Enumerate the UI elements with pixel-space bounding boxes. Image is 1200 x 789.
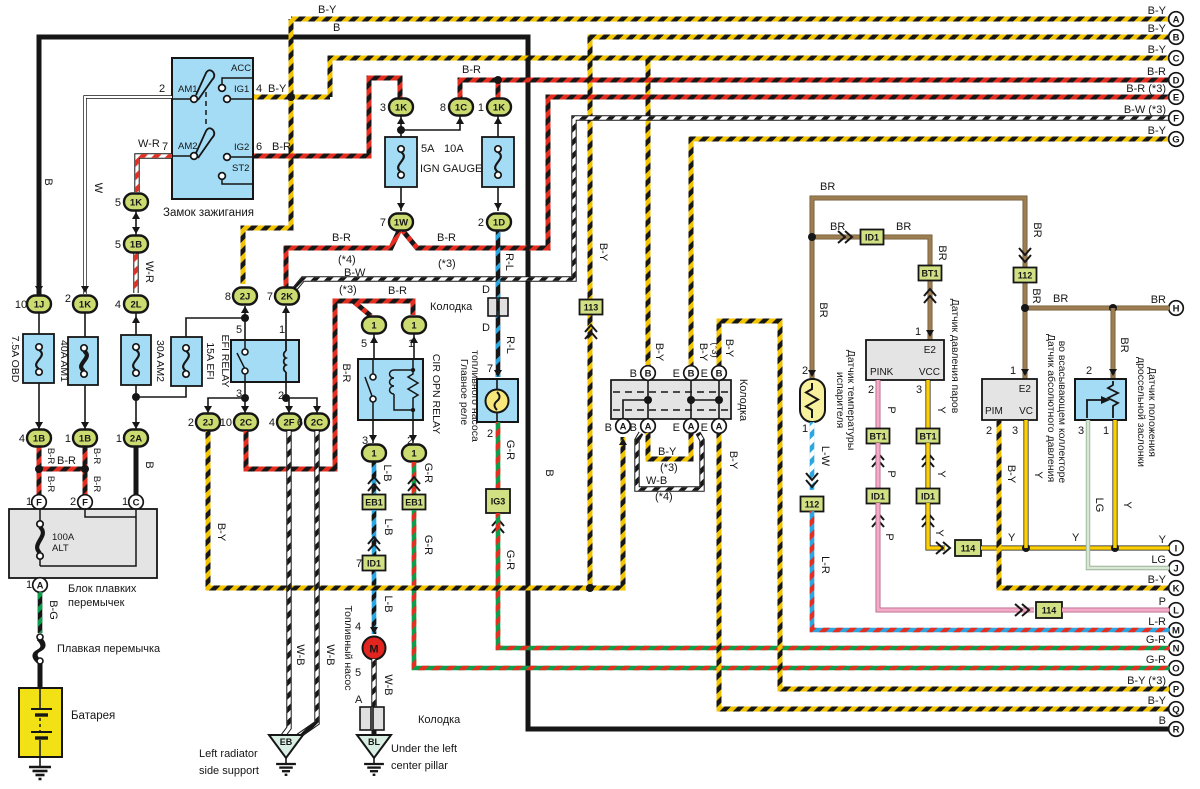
terminal B	[1169, 30, 1184, 45]
arrowhead into relay box	[494, 370, 502, 377]
svg-text:C: C	[1173, 53, 1180, 64]
arrowhead into TPS	[1109, 369, 1117, 376]
wire W-R 1B to 2L	[133, 253, 138, 293]
terminal F	[1169, 111, 1184, 126]
svg-text:7: 7	[356, 558, 362, 570]
connector ID1 left	[363, 556, 386, 571]
wire EFI fuse top to relay node	[186, 318, 245, 349]
svg-text:B: B	[605, 422, 612, 434]
wire Y to terminal I	[981, 546, 1169, 551]
wire LG to terminal J	[1088, 420, 1169, 568]
svg-text:B-Y: B-Y	[318, 4, 337, 16]
wire R-L 1D to relay	[496, 231, 501, 377]
wire pin2 branch	[286, 398, 317, 413]
svg-text:G-R: G-R	[1146, 654, 1166, 666]
svg-text:1: 1	[411, 449, 417, 460]
svg-text:8: 8	[225, 291, 231, 303]
svg-text:L: L	[1173, 605, 1179, 616]
terminal F1	[32, 495, 47, 510]
terminal C	[129, 495, 144, 510]
connector IG3	[486, 489, 510, 513]
svg-text:Left radiator: Left radiator	[199, 748, 258, 760]
svg-text:(*3): (*3)	[660, 462, 678, 474]
svg-text:1: 1	[802, 423, 808, 435]
svg-text:B-R: B-R	[388, 285, 407, 297]
wire G-R EB1 to terminal O	[414, 510, 1169, 668]
svg-text:112: 112	[1018, 271, 1033, 281]
junction BR H right	[1109, 304, 1117, 312]
wire 10A fuse to 1D	[497, 187, 499, 211]
wire B-R 1B to F1	[37, 446, 42, 495]
terminal O	[1169, 661, 1184, 676]
svg-text:Батарея: Батарея	[71, 710, 115, 722]
wire B-Y loop A2-A3	[648, 433, 691, 459]
svg-text:EB1: EB1	[365, 498, 383, 508]
wire pin3 to oval	[372, 420, 374, 443]
fusible link block internals	[40, 509, 136, 566]
svg-text:BR: BR	[1030, 288, 1042, 303]
junction D-line stub	[494, 76, 502, 84]
svg-text:B-R: B-R	[57, 455, 76, 467]
wire BR top run	[812, 198, 1025, 380]
EFI relay internals	[237, 340, 286, 382]
svg-text:5: 5	[355, 667, 361, 679]
ground battery	[29, 767, 51, 779]
svg-text:ID1: ID1	[921, 492, 935, 502]
svg-text:W-B: W-B	[294, 644, 306, 665]
terminal D	[1169, 73, 1184, 88]
svg-text:B: B	[630, 368, 637, 380]
svg-text:1B: 1B	[33, 434, 45, 445]
connector BT1 Y	[917, 429, 940, 444]
fuse box 40A AM1	[68, 337, 98, 385]
svg-text:1W: 1W	[394, 218, 408, 229]
svg-text:Колодка: Колодка	[418, 714, 461, 726]
wire P to terminal L	[878, 503, 1034, 610]
wire G-R oval to EB1	[412, 462, 417, 494]
block circle A1	[616, 419, 631, 434]
connector 1 pin5	[362, 317, 386, 334]
junction block right	[715, 396, 723, 404]
svg-text:B-Y: B-Y	[268, 83, 287, 95]
svg-text:Y: Y	[1032, 471, 1044, 479]
svg-text:Q: Q	[1172, 704, 1179, 715]
svg-text:G: G	[1172, 134, 1179, 145]
svg-text:CIR OPN RELAY: CIR OPN RELAY	[430, 354, 442, 434]
svg-text:112: 112	[805, 500, 820, 510]
fuse element 5A IGN	[398, 146, 404, 178]
wire B-Y terminal C run	[330, 58, 1169, 97]
terminal J	[1169, 561, 1184, 576]
svg-text:B-Y: B-Y	[1148, 44, 1167, 56]
wire L-B oval to EB1	[372, 462, 377, 494]
svg-text:2: 2	[159, 83, 165, 95]
svg-text:Y: Y	[1008, 532, 1016, 544]
svg-text:4: 4	[269, 417, 275, 429]
svg-text:BR: BR	[820, 181, 835, 193]
svg-text:AM2: AM2	[178, 141, 198, 152]
svg-text:IG3: IG3	[491, 497, 506, 507]
wire EB stem	[285, 758, 287, 763]
svg-text:10A: 10A	[444, 143, 464, 155]
svg-text:EFI RELAY: EFI RELAY	[219, 335, 231, 388]
svg-text:P: P	[885, 470, 897, 477]
connector 2A	[124, 430, 148, 447]
arrowhead into 2J lower	[204, 406, 212, 413]
wire BR branch to vapor sensor	[812, 237, 930, 340]
wire W-B from 2C6	[297, 431, 317, 737]
svg-text:E2: E2	[1019, 384, 1032, 395]
MAP sensor box	[982, 379, 1037, 420]
chevrons BT1 BR	[924, 289, 936, 303]
wire G-R relay to IG3	[496, 422, 501, 489]
svg-text:1K: 1K	[79, 300, 91, 311]
arrowhead into 1K3	[397, 117, 405, 124]
connector 1 below pin2	[402, 445, 426, 462]
svg-text:1: 1	[411, 321, 417, 332]
junction EFI fuse / relay pin5	[241, 314, 249, 322]
svg-text:B-R: B-R	[340, 364, 352, 383]
svg-text:B-R: B-R	[91, 448, 102, 465]
svg-text:BR: BR	[1031, 222, 1043, 237]
evaporator temperature sensor	[800, 379, 825, 422]
wire B-R 1W to connector 2K	[286, 231, 399, 288]
wire B-R bridge	[39, 467, 85, 472]
block circle B2	[684, 366, 699, 381]
svg-text:B-R (*3): B-R (*3)	[1126, 83, 1166, 95]
terminal C	[1169, 51, 1184, 66]
terminal N	[1169, 641, 1184, 656]
wire AM1 fuse to 1B	[84, 385, 86, 430]
wire B-Y 2J to block A1	[208, 431, 623, 588]
chevrons ID1 P	[872, 513, 884, 527]
svg-text:2J: 2J	[203, 418, 214, 429]
svg-text:дроссельной заслонки: дроссельной заслонки	[1135, 357, 1147, 467]
svg-text:ID1: ID1	[367, 559, 381, 569]
svg-text:3: 3	[916, 384, 922, 396]
svg-text:E: E	[673, 422, 680, 434]
wire W-B pump to kolodka	[371, 659, 376, 707]
wire W-B loop A2-A3	[637, 433, 702, 489]
wire B-Y IG1 pin 4	[254, 95, 330, 100]
svg-text:1J: 1J	[34, 300, 45, 311]
svg-text:L-B: L-B	[382, 518, 394, 535]
svg-text:B: B	[716, 368, 723, 379]
svg-text:4: 4	[256, 83, 262, 95]
svg-text:G-R: G-R	[1146, 634, 1166, 646]
svg-text:R-L: R-L	[503, 253, 515, 271]
connector D pair	[488, 298, 508, 316]
svg-text:(*4): (*4)	[655, 491, 673, 503]
svg-text:Плавкая перемычка: Плавкая перемычка	[57, 643, 161, 655]
svg-text:B-R: B-R	[45, 476, 56, 493]
svg-text:7: 7	[380, 217, 386, 229]
connector 2F	[277, 414, 301, 431]
connector 1J	[27, 296, 51, 313]
fusible link block box	[9, 509, 157, 578]
ground under BL	[364, 764, 384, 775]
wire 1C elbow to fuse node	[401, 116, 460, 130]
terminal M	[1169, 623, 1184, 638]
svg-text:1: 1	[371, 321, 377, 332]
arrowhead into 1B left	[35, 422, 43, 429]
connector ID1 Y	[917, 489, 940, 504]
svg-text:5: 5	[115, 239, 121, 251]
svg-text:испарителя: испарителя	[834, 372, 846, 428]
fuse box 10A GAUGE	[482, 137, 514, 187]
terminal P	[1169, 682, 1184, 697]
arrowhead into 2J upper	[241, 306, 249, 313]
svg-text:EB1: EB1	[405, 498, 423, 508]
svg-text:P: P	[1173, 684, 1180, 695]
svg-text:B-Y: B-Y	[597, 243, 609, 262]
wire kolodka to BL	[372, 730, 377, 736]
svg-text:1: 1	[408, 338, 414, 350]
svg-text:Топливный насос: Топливный насос	[342, 606, 354, 691]
fuel pump motor	[363, 637, 386, 660]
arrowhead into MAP sensor	[1021, 369, 1029, 376]
connector 1W	[389, 214, 413, 231]
svg-text:5: 5	[236, 324, 242, 336]
svg-text:BT1: BT1	[869, 432, 886, 442]
svg-text:D: D	[1173, 75, 1180, 86]
arrowhead into 2K	[282, 306, 290, 313]
chevrons L-B upper	[368, 477, 380, 491]
svg-text:(*4): (*4)	[338, 254, 356, 266]
svg-text:1K: 1K	[493, 103, 505, 114]
svg-text:114: 114	[961, 544, 976, 554]
wire AM2 fuse to node	[135, 385, 137, 430]
wire node to 2J upper	[244, 306, 246, 318]
connector 1B lower left	[27, 430, 51, 447]
svg-text:BR: BR	[896, 221, 911, 233]
svg-text:B-Y: B-Y	[1148, 5, 1167, 17]
wire B-R IG2 to fuse 1K	[254, 78, 400, 156]
chevrons BR ID1	[838, 231, 852, 243]
junction 113 line on 588 run	[586, 584, 594, 592]
terminal A battery	[33, 578, 48, 593]
terminal K	[1169, 581, 1184, 596]
svg-text:N: N	[1173, 643, 1180, 654]
svg-text:B: B	[645, 368, 652, 379]
chevrons G-R	[408, 477, 420, 491]
svg-text:B-R: B-R	[91, 476, 102, 493]
wire B-Y terminal B run via 113	[590, 37, 1169, 588]
svg-text:G-R: G-R	[422, 463, 434, 483]
arrowhead into oval pin5	[370, 336, 378, 343]
svg-text:2: 2	[986, 425, 992, 437]
chevrons BT1 Y	[922, 453, 934, 467]
arrowhead into oval pin1	[410, 336, 418, 343]
svg-text:15A EFI: 15A EFI	[204, 342, 216, 379]
svg-text:6: 6	[256, 141, 262, 153]
connector EB1 right	[403, 495, 426, 510]
svg-text:2L: 2L	[130, 300, 141, 311]
arrowhead into 2A	[132, 422, 140, 429]
svg-text:B: B	[1173, 32, 1180, 43]
svg-text:B-Y: B-Y	[1148, 23, 1167, 35]
connector EB1 left	[363, 495, 386, 510]
svg-text:O: O	[1172, 663, 1179, 674]
junction Y TPS	[1111, 544, 1119, 552]
svg-text:ID1: ID1	[871, 492, 885, 502]
svg-text:B: B	[42, 178, 54, 185]
wire B-Y node A down to connector 2J	[243, 19, 291, 284]
wire L-B ID1 to pump	[372, 571, 377, 634]
wire pin2 to oval	[412, 420, 414, 443]
wire B-R to oval 1	[353, 301, 413, 315]
fuse box 7.5A OBD	[23, 334, 54, 383]
wire BR to TPS	[1111, 308, 1116, 379]
terminal A	[1169, 12, 1184, 27]
wire Y BT1 to ID1	[926, 443, 931, 489]
junction fuse bottoms	[132, 393, 140, 401]
svg-text:8: 8	[440, 102, 446, 114]
svg-text:AM1: AM1	[178, 84, 198, 95]
relay box EFI RELAY	[231, 340, 299, 382]
block circle A4	[712, 419, 727, 434]
svg-text:L-R: L-R	[819, 556, 831, 574]
svg-text:M: M	[1172, 625, 1180, 636]
svg-text:A: A	[37, 580, 44, 591]
connector 1K upper	[124, 194, 148, 211]
svg-text:2: 2	[478, 217, 484, 229]
svg-text:Y: Y	[933, 529, 945, 537]
fuse box 5A IGN	[385, 137, 417, 187]
svg-text:5: 5	[115, 197, 121, 209]
svg-text:перемычек: перемычек	[68, 597, 125, 609]
connector 1K-3	[389, 99, 413, 116]
svg-text:B-Y: B-Y	[215, 523, 227, 542]
connector 2C-6	[305, 414, 329, 431]
svg-text:ID1: ID1	[865, 233, 879, 243]
svg-text:во всасывающем коллекторе: во всасывающем коллекторе	[1056, 341, 1068, 484]
fuse element 10A GAUGE	[495, 146, 501, 178]
svg-text:7.5A OBD: 7.5A OBD	[9, 336, 21, 383]
junction B-R right	[81, 465, 89, 473]
svg-text:2A: 2A	[130, 434, 142, 445]
connector 1K mid	[73, 296, 97, 313]
wire Y from VCC	[926, 380, 931, 429]
svg-text:W: W	[92, 183, 104, 194]
connector 2L	[124, 296, 148, 313]
block circle B3	[712, 366, 727, 381]
connector 2C-10	[234, 414, 258, 431]
connector 114 P	[1036, 602, 1062, 618]
ground connector EB	[269, 735, 303, 758]
wire oval to relay pin1	[413, 334, 415, 370]
chevrons 114 Y	[936, 542, 950, 554]
svg-text:2K: 2K	[281, 292, 293, 303]
relay box main fuel pump relay	[477, 379, 518, 422]
svg-text:B-Y: B-Y	[697, 343, 709, 362]
svg-text:2: 2	[188, 417, 194, 429]
svg-text:BR: BR	[817, 302, 829, 317]
svg-text:W-B: W-B	[324, 644, 336, 665]
wire AM2/EFI fuse bottom link	[136, 386, 186, 397]
arrowhead into 2F	[285, 406, 293, 413]
wire link to battery	[38, 664, 43, 688]
terminal R	[1169, 722, 1184, 737]
svg-text:P: P	[885, 406, 897, 413]
svg-text:VCC: VCC	[919, 367, 940, 378]
svg-text:BR: BR	[936, 245, 948, 260]
svg-text:A: A	[620, 421, 627, 432]
svg-text:PIM: PIM	[985, 406, 1003, 417]
svg-text:H: H	[1173, 303, 1180, 314]
svg-text:Y: Y	[1159, 534, 1167, 546]
svg-text:L-R: L-R	[1148, 616, 1166, 628]
svg-text:1K: 1K	[395, 103, 407, 114]
svg-text:W-R: W-R	[143, 261, 155, 283]
arrowhead into oval below pin3	[369, 435, 377, 442]
svg-text:ALT: ALT	[52, 543, 69, 554]
wire W-B from 2F	[283, 431, 289, 736]
svg-text:BT1: BT1	[921, 269, 938, 279]
connector block internal wiring	[623, 380, 719, 419]
svg-text:7: 7	[267, 291, 273, 303]
ignition switch internals	[172, 70, 253, 184]
connector kolodka pump	[360, 707, 384, 730]
svg-text:2: 2	[802, 365, 808, 377]
svg-text:B: B	[630, 422, 637, 434]
ground connector BL	[357, 735, 391, 758]
svg-text:E: E	[673, 368, 680, 380]
arrowhead into 1J	[35, 286, 43, 293]
svg-text:VC: VC	[1019, 406, 1033, 417]
junction BR	[808, 233, 816, 241]
connector 1K-1	[487, 99, 511, 116]
svg-text:(*3): (*3)	[438, 258, 456, 270]
svg-text:10: 10	[220, 417, 232, 429]
svg-text:B-Y: B-Y	[1005, 465, 1017, 484]
svg-text:1: 1	[1103, 425, 1109, 437]
wire B-R diagonal to oval 5	[353, 301, 371, 316]
arrowhead into pump	[370, 627, 378, 634]
svg-text:BT1: BT1	[919, 432, 936, 442]
arrowhead into 2C-6	[313, 406, 321, 413]
connector 2J lower	[196, 414, 220, 431]
ground under EB	[276, 764, 296, 775]
fuse box 15A EFI	[171, 337, 202, 386]
svg-text:BR: BR	[1151, 294, 1166, 306]
connector 1C	[449, 99, 473, 116]
svg-text:1: 1	[371, 449, 377, 460]
svg-text:40A AM1: 40A AM1	[58, 340, 70, 382]
block circle A3	[684, 419, 699, 434]
arrowhead into vapor sensor	[926, 330, 934, 337]
svg-text:IG1: IG1	[234, 84, 249, 95]
svg-text:2: 2	[487, 428, 493, 440]
svg-text:E: E	[701, 422, 708, 434]
arrowhead into 1K row	[81, 286, 89, 293]
terminal G	[1169, 132, 1184, 147]
svg-text:BR: BR	[1053, 293, 1068, 305]
svg-text:ST2: ST2	[232, 163, 249, 174]
svg-text:side support: side support	[199, 765, 259, 777]
fuse element 15A EFI	[183, 345, 189, 377]
connector 114 Y	[955, 540, 981, 556]
svg-text:1: 1	[26, 579, 32, 591]
svg-text:IG2: IG2	[234, 142, 249, 153]
junction B-R left	[35, 465, 43, 473]
svg-text:B-Y: B-Y	[723, 339, 735, 358]
wire B-R terminal D run	[460, 80, 1169, 100]
svg-text:B-R: B-R	[45, 448, 56, 465]
wire pin3 branch	[208, 398, 245, 413]
fuse element 40A AM1	[81, 345, 87, 377]
arrowhead into 2C-10	[241, 406, 249, 413]
